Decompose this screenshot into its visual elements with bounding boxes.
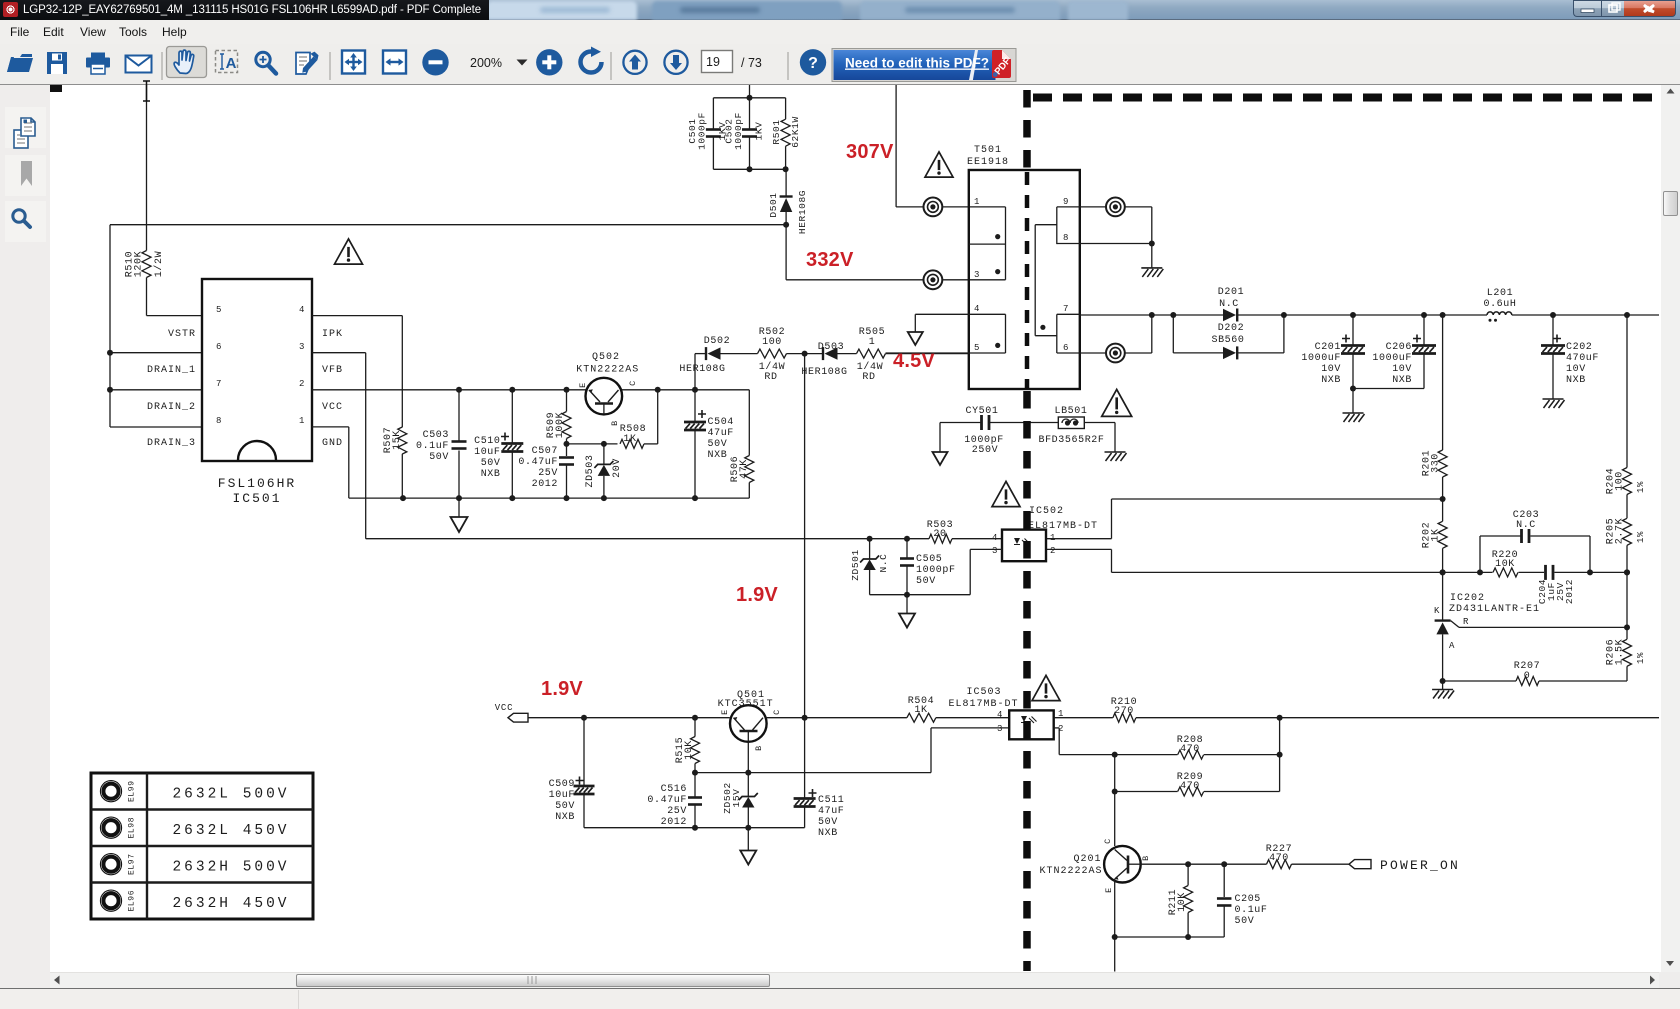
svg-text:1K: 1K [914,705,927,716]
svg-text:HER108G: HER108G [679,364,725,375]
svg-text:C504: C504 [708,417,734,428]
svg-text:10uF: 10uF [549,790,575,801]
svg-text:C505: C505 [916,554,942,565]
svg-text:B: B [754,745,764,751]
svg-text:470: 470 [1180,744,1200,755]
svg-text:VCC: VCC [495,703,514,713]
svg-text:50V: 50V [818,817,838,828]
svg-text:4: 4 [997,710,1003,720]
svg-text:2632L 450V: 2632L 450V [172,823,289,839]
svg-text:NXB: NXB [1321,375,1341,386]
svg-text:4: 4 [974,304,980,314]
svg-text:100: 100 [762,337,782,348]
svg-text:RD: RD [862,372,875,383]
svg-text:RD: RD [764,372,777,383]
svg-text:2012: 2012 [661,817,687,828]
svg-text:C503: C503 [423,430,449,441]
svg-text:K: K [1434,606,1440,616]
svg-text:2632L 500V: 2632L 500V [172,787,289,803]
svg-text:2.7K: 2.7K [1615,518,1626,544]
svg-text:20: 20 [933,529,946,540]
svg-text:470: 470 [1180,781,1200,792]
svg-text:307V: 307V [846,141,894,163]
svg-text:C: C [628,380,638,386]
svg-text:2012: 2012 [1564,579,1575,604]
svg-text:10K: 10K [1177,892,1188,912]
svg-text:25V: 25V [667,806,687,817]
svg-text:1%: 1% [1636,481,1646,493]
svg-text:DRAIN_1: DRAIN_1 [147,365,196,376]
svg-text:C206: C206 [1386,342,1412,353]
svg-text:KTC3551T: KTC3551T [718,699,774,710]
svg-text:200%: 200% [470,56,502,70]
svg-text:HER108G: HER108G [801,367,847,378]
svg-text:1000uF: 1000uF [1301,353,1341,364]
svg-text:62K1W: 62K1W [790,116,801,148]
svg-text:2: 2 [1050,546,1056,556]
svg-text:1/2W: 1/2W [153,251,165,277]
svg-text:0.1uF: 0.1uF [416,441,449,452]
svg-text:5: 5 [974,343,980,353]
svg-text:1: 1 [299,416,305,426]
svg-text:A: A [1449,641,1455,651]
svg-text:7: 7 [1063,304,1069,314]
svg-text:50V: 50V [429,452,449,463]
svg-text:R: R [1463,617,1469,627]
svg-text:Q201: Q201 [1073,854,1101,865]
svg-text:0: 0 [1524,671,1531,682]
svg-text:0.1uF: 0.1uF [1235,905,1268,916]
svg-text:HER108G: HER108G [797,190,808,234]
svg-text:4: 4 [992,533,998,543]
svg-text:D201: D201 [1218,287,1244,298]
svg-text:CY501: CY501 [965,406,998,417]
svg-text:NXB: NXB [818,828,838,839]
svg-text:2632H 450V: 2632H 450V [172,896,289,912]
svg-text:250V: 250V [972,445,998,456]
svg-text:IC503: IC503 [966,687,1001,698]
svg-text:NXB: NXB [1392,375,1412,386]
svg-text:330: 330 [1431,453,1442,473]
svg-text:10uF: 10uF [474,447,500,458]
svg-text:1000uF: 1000uF [1372,353,1412,364]
svg-text:1K: 1K [1431,528,1442,541]
svg-text:C511: C511 [818,795,844,806]
svg-text:10V: 10V [1321,364,1341,375]
svg-text:1.9V: 1.9V [736,584,778,606]
svg-text:1%: 1% [1636,652,1646,664]
svg-text:SB560: SB560 [1211,335,1244,346]
svg-text:8: 8 [216,416,222,426]
svg-text:50V: 50V [1235,916,1255,927]
svg-text:D202: D202 [1218,323,1244,334]
svg-text:50V: 50V [555,801,575,812]
svg-text:N.C: N.C [878,554,889,573]
svg-text:FSL106HR: FSL106HR [218,476,296,491]
svg-text:E: E [578,382,588,388]
svg-text:D502: D502 [704,336,730,347]
svg-text:EL98: EL98 [128,817,137,839]
svg-text:50V: 50V [708,439,728,450]
svg-text:8: 8 [1063,233,1069,243]
svg-text:1K: 1K [623,434,636,445]
svg-text:LB501: LB501 [1054,406,1087,417]
svg-text:C510: C510 [474,436,500,447]
svg-text:Need to edit this PDF?: Need to edit this PDF? [845,56,989,71]
svg-text:10K: 10K [684,740,695,760]
svg-text:1: 1 [869,337,876,348]
svg-text:2632H 500V: 2632H 500V [172,860,289,876]
svg-text:20V: 20V [612,458,623,478]
svg-text:2: 2 [299,379,305,389]
svg-text:ZD501: ZD501 [850,549,861,581]
svg-text:POWER_ON: POWER_ON [1380,858,1460,873]
svg-text:470: 470 [1269,853,1289,864]
svg-text:B: B [1141,855,1151,861]
svg-text:332V: 332V [806,249,854,271]
svg-text:?: ? [808,55,818,72]
svg-text:C: C [772,709,782,715]
svg-text:VSTR: VSTR [168,329,196,340]
svg-text:N.C: N.C [1516,520,1536,531]
svg-text:270: 270 [1114,706,1134,717]
svg-text:BFD3565R2F: BFD3565R2F [1038,435,1104,446]
svg-text:2012: 2012 [532,479,558,490]
svg-text:GND: GND [322,438,343,449]
svg-text:15K: 15K [392,430,403,450]
svg-text:0.47uF: 0.47uF [647,795,687,806]
svg-text:1000pF: 1000pF [916,565,956,576]
svg-text:NXB: NXB [481,469,501,480]
svg-text:3: 3 [299,342,305,352]
svg-text:15V: 15V [731,789,742,808]
svg-text:NXB: NXB [555,812,575,823]
svg-text:B: B [610,420,620,426]
svg-text:ZD503: ZD503 [585,454,596,487]
svg-text:D503: D503 [818,342,844,353]
svg-text:47uF: 47uF [818,806,844,817]
svg-text:A: A [226,55,237,72]
svg-text:L201: L201 [1487,288,1513,299]
svg-text:0.47uF: 0.47uF [518,457,558,468]
svg-text:VFB: VFB [322,365,343,376]
svg-text:120K: 120K [134,251,145,277]
svg-text:C201: C201 [1315,342,1341,353]
svg-text:1.5K: 1.5K [1615,639,1626,665]
svg-text:DRAIN_3: DRAIN_3 [147,438,196,449]
svg-text:1.9V: 1.9V [541,678,583,700]
svg-text:N.C: N.C [1219,299,1239,310]
svg-text:EL817MB-DT: EL817MB-DT [1028,521,1098,532]
svg-text:EL96: EL96 [128,890,137,912]
svg-text:9: 9 [1063,197,1069,207]
svg-text:6: 6 [216,342,222,352]
svg-text:EE1918: EE1918 [967,157,1009,168]
svg-text:10V: 10V [1392,364,1412,375]
svg-text:C507: C507 [532,446,558,457]
svg-text:1%: 1% [1636,531,1646,543]
svg-text:50V: 50V [481,458,501,469]
svg-text:3: 3 [997,724,1003,734]
svg-text:Q502: Q502 [592,352,620,363]
svg-text:NXB: NXB [1566,375,1586,386]
svg-text:KTN2222AS: KTN2222AS [576,365,639,376]
svg-text:DRAIN_2: DRAIN_2 [147,402,196,413]
svg-text:1000pF: 1000pF [733,112,744,150]
svg-text:1: 1 [1050,533,1056,543]
svg-text:/ 73: / 73 [741,56,762,70]
svg-text:KTN2222AS: KTN2222AS [1039,866,1102,877]
svg-text:4: 4 [299,305,305,315]
svg-text:100: 100 [1615,471,1626,491]
svg-text:NXB: NXB [708,450,728,461]
svg-text:0.6uH: 0.6uH [1483,299,1516,310]
svg-text:R501: R501 [771,119,782,144]
svg-text:EL817MB-DT: EL817MB-DT [948,699,1018,710]
svg-text:1KV: 1KV [754,122,765,141]
svg-text:IC502: IC502 [1029,506,1064,517]
svg-text:7: 7 [216,379,222,389]
svg-text:47uF: 47uF [708,428,734,439]
svg-text:470uF: 470uF [1566,353,1599,364]
svg-text:IPK: IPK [322,329,343,340]
svg-text:VCC: VCC [322,402,343,413]
svg-text:E: E [720,709,730,715]
svg-text:1000pF: 1000pF [697,112,708,150]
svg-text:19: 19 [706,55,720,69]
svg-text:50V: 50V [916,576,936,587]
svg-text:10V: 10V [1566,364,1586,375]
svg-text:1: 1 [974,197,980,207]
svg-text:D501: D501 [768,192,779,217]
svg-text:100K: 100K [555,412,566,438]
svg-text:EL99: EL99 [128,780,137,802]
svg-text:IC501: IC501 [232,491,281,506]
svg-text:EL97: EL97 [128,853,137,875]
svg-text:T501: T501 [974,145,1002,156]
svg-text:C202: C202 [1566,342,1592,353]
svg-text:C: C [1103,838,1113,844]
svg-text:25V: 25V [538,468,558,479]
svg-text:IC202: IC202 [1450,593,1485,604]
svg-text:6: 6 [1063,343,1069,353]
svg-text:C516: C516 [661,784,687,795]
svg-text:10K: 10K [1495,559,1515,570]
svg-text:C205: C205 [1235,894,1261,905]
svg-text:E: E [1104,887,1114,893]
svg-text:5: 5 [216,305,222,315]
svg-text:3: 3 [974,270,980,280]
svg-text:C509: C509 [549,779,575,790]
svg-text:ZD431LANTR-E1: ZD431LANTR-E1 [1449,604,1540,615]
svg-text:3: 3 [992,546,998,556]
svg-text:47K: 47K [739,459,750,479]
